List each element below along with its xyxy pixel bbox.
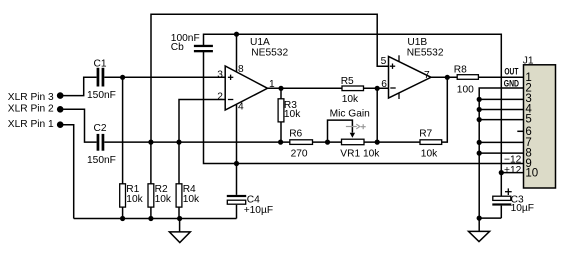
wire C1 junction down to R1: [122, 77, 124, 184]
svg-text:U1B: U1B: [407, 37, 427, 48]
wire U1B out to R8: [431, 76, 457, 78]
svg-text:10k: 10k: [155, 194, 172, 205]
node R2 gnd: [148, 216, 153, 221]
ground stub right: [478, 218, 480, 231]
wire R4 bottom to ground rail: [178, 207, 180, 218]
svg-text:10k: 10k: [183, 194, 200, 205]
svg-text:U1A: U1A: [250, 37, 270, 48]
svg-text:NE5532: NE5532: [251, 48, 288, 59]
resistor R3: [278, 99, 301, 122]
svg-text:XLR Pin 2: XLR Pin 2: [8, 104, 54, 115]
capacitor Cb 100nF: [171, 33, 213, 53]
wire C4 bottom to ground rail: [236, 205, 238, 219]
svg-text:4: 4: [238, 102, 244, 113]
node J1 pin7 bus: [477, 140, 482, 145]
svg-text:10k: 10k: [126, 194, 143, 205]
wire U1A pin8 to +12 rail: [236, 34, 238, 72]
svg-text:+10µF: +10µF: [244, 205, 273, 216]
wire J1 pin7: [479, 141, 523, 143]
wire R2 bottom to ground rail: [150, 207, 152, 218]
wire XLR pin2 to C2: [60, 109, 96, 142]
op-amp U1B: [381, 37, 444, 99]
XLR terminal labels: [8, 92, 54, 130]
wire XLR pin1 to ground rail: [60, 125, 73, 219]
wire C1 to U1A pin3: [104, 76, 225, 78]
wire R3 top: [280, 88, 282, 99]
wire XLR pin3 to C1: [60, 77, 96, 95]
node R3 bottom: [278, 140, 283, 145]
svg-text:1: 1: [269, 79, 275, 90]
capacitor C2: [87, 123, 116, 166]
capacitor C4 electrolytic: [227, 194, 273, 216]
wire U1A pin4 to -12 rail: [236, 105, 238, 164]
node U1A out: [278, 86, 283, 91]
ground symbol left: [169, 232, 190, 243]
svg-text:8: 8: [238, 64, 244, 75]
svg-text:OUT: OUT: [504, 67, 518, 77]
resistor R1: [120, 184, 144, 207]
terminal dot XLR pin1: [57, 121, 64, 128]
terminal dot XLR pin2: [57, 106, 64, 113]
wire C3 bottom: [500, 206, 502, 219]
node J1 pin5 bus: [477, 117, 482, 122]
node J1 pin8 bus: [477, 151, 482, 156]
wire J1 pin6 nc dash: [517, 130, 523, 132]
svg-text:R5: R5: [341, 76, 354, 87]
svg-text:150nF: 150nF: [87, 155, 116, 166]
wire ground rail left: [74, 218, 237, 220]
svg-text:C4: C4: [247, 194, 260, 205]
svg-text:R8: R8: [454, 65, 467, 76]
svg-text:+12: +12: [504, 165, 522, 176]
wire R5 to U1B pin6: [364, 87, 389, 89]
svg-text:100: 100: [457, 85, 474, 96]
wire R7 to U1B out: [442, 77, 448, 142]
wire J1 pin5: [479, 119, 523, 121]
wire J1 pin3: [479, 98, 523, 100]
wire junction down to R4: [178, 142, 180, 184]
svg-text:5: 5: [381, 56, 387, 67]
wire pin6 junction down to VR1/R7 node: [376, 88, 378, 142]
svg-text:10k: 10k: [284, 109, 301, 120]
op-amp U1A: [217, 37, 288, 113]
resistor R7: [419, 128, 442, 159]
wire R6 to VR1: [313, 141, 342, 143]
wire J1 pin8: [479, 152, 523, 154]
svg-text:Cb: Cb: [171, 42, 184, 53]
terminal dot XLR pin3: [57, 92, 64, 99]
svg-text:10k: 10k: [342, 94, 359, 105]
capacitor C3 electrolytic: [492, 188, 534, 213]
node pin2-R4: [176, 140, 181, 145]
node pin8 +12: [234, 32, 239, 37]
svg-text:150nF: 150nF: [87, 90, 116, 101]
ground symbol right: [469, 231, 490, 241]
svg-text:7: 7: [424, 70, 430, 81]
node J1 pin3 bus: [477, 97, 482, 102]
potentiometer VR1: [330, 108, 381, 159]
node C2-R2-top loop: [148, 140, 153, 145]
wire R8 to J1 pin1 OUT: [478, 76, 523, 78]
wire VR1 to R7: [364, 141, 420, 143]
resistor R4: [176, 184, 200, 207]
wire junction down to R2: [150, 142, 152, 184]
svg-text:270: 270: [291, 149, 308, 160]
svg-text:Mic Gain: Mic Gain: [330, 108, 370, 119]
wire C4 top: [236, 164, 238, 195]
svg-text:GND: GND: [504, 78, 520, 88]
wire top loop net B to U1B pin5: [151, 14, 389, 142]
svg-text:J1: J1: [523, 56, 534, 67]
node U1B out: [445, 75, 450, 80]
VR1 grey adjust arrow: [346, 124, 366, 129]
connector J1: [504, 56, 556, 188]
node C1-R1-pin3: [120, 75, 125, 80]
wire J1 pin4: [479, 109, 523, 111]
svg-text:5: 5: [525, 114, 531, 126]
node VR1-R7-pin6 drop: [375, 140, 380, 145]
ground stub left: [179, 219, 181, 232]
svg-text:C1: C1: [94, 58, 107, 69]
svg-text:R7: R7: [419, 128, 432, 139]
node U1B pin6: [375, 86, 380, 91]
svg-text:10µF: 10µF: [511, 203, 534, 214]
node R4 gnd: [177, 216, 182, 221]
wire -12 rail: [204, 52, 524, 164]
capacitor C1: [87, 58, 116, 101]
svg-text:2: 2: [217, 92, 223, 103]
node R1 gnd: [120, 216, 125, 221]
wire R3 bottom: [280, 122, 282, 142]
node +12 pin10: [499, 170, 504, 175]
wire ground rail right: [479, 217, 501, 219]
svg-text:R6: R6: [289, 128, 302, 139]
svg-text:XLR Pin 3: XLR Pin 3: [8, 92, 54, 103]
wire VR1 wiper loop: [328, 120, 353, 142]
node pin4 -12: [234, 161, 239, 166]
svg-text:3: 3: [217, 70, 223, 81]
resistor R5: [341, 76, 364, 105]
wire GND bus from J1 pin2: [479, 88, 523, 218]
svg-text:XLR Pin 1: XLR Pin 1: [8, 119, 54, 130]
wire C2 to R6: [104, 141, 289, 143]
wire C3 top: [500, 173, 502, 196]
node R6-VR1 wiper: [325, 140, 330, 145]
wire R1 bottom to ground rail: [122, 207, 124, 218]
svg-text:C2: C2: [94, 123, 107, 134]
node J1 pin4 bus: [477, 107, 482, 112]
wire junction up to U1A pin2: [179, 100, 225, 143]
svg-text:6: 6: [381, 79, 387, 90]
svg-text:−12: −12: [504, 155, 522, 166]
wire U1A out to R5: [268, 87, 343, 89]
resistor R6: [289, 128, 312, 159]
node gnd bus bottom: [477, 216, 482, 221]
resistor R8: [454, 65, 479, 96]
svg-text:10k: 10k: [421, 149, 438, 160]
wire +12 rail: [204, 34, 524, 172]
resistor R2: [148, 184, 172, 207]
svg-text:NE5532: NE5532: [407, 48, 444, 59]
svg-text:10: 10: [525, 168, 538, 180]
svg-text:VR1 10k: VR1 10k: [340, 149, 380, 160]
